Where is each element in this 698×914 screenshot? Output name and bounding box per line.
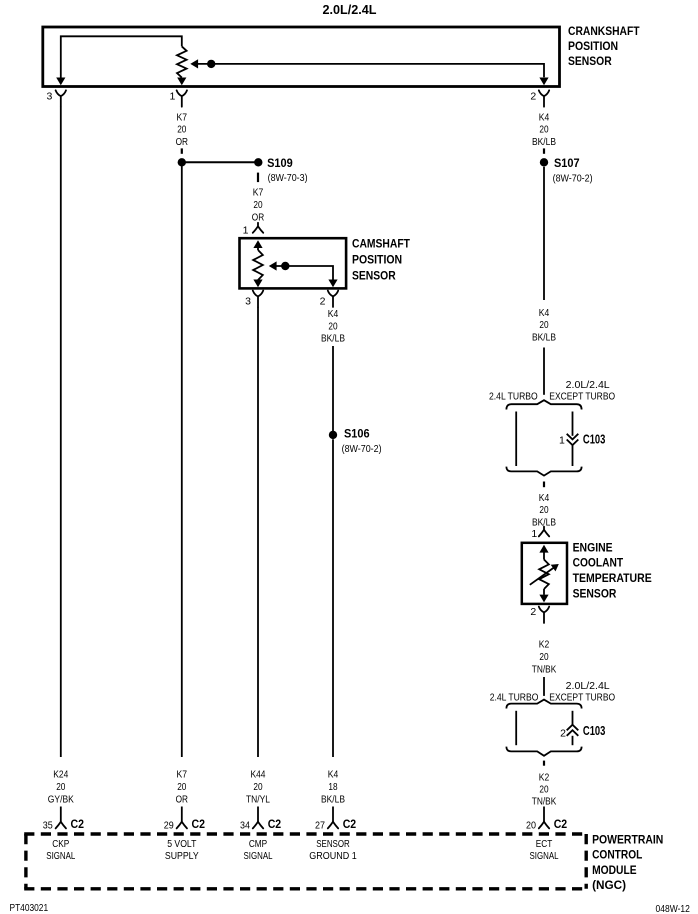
wire label K4 20 BK/LB (above ECT sensor) (532, 493, 556, 528)
svg-text:20: 20 (539, 320, 548, 331)
net name CKP SIGNAL (pin 35) (46, 839, 75, 862)
wire label K4 20 BK/LB (below crank pin 2) (532, 112, 556, 148)
svg-text:GY/BK: GY/BK (48, 794, 74, 805)
svg-text:BK/LB: BK/LB (532, 137, 556, 148)
svg-text:POSITION: POSITION (352, 253, 402, 267)
wire split 1 right branch lower (572, 445, 574, 466)
PCM pin 29 connector (177, 822, 187, 829)
crankshaft position sensor name label (568, 24, 640, 68)
svg-text:TN/BK: TN/BK (532, 796, 557, 807)
svg-text:20: 20 (539, 125, 548, 136)
svg-text:29: 29 (164, 819, 174, 831)
arrowhead up at cam pin 1 (inside box) (253, 240, 262, 248)
camshaft position sensor name label (352, 237, 411, 283)
svg-text:048W-12: 048W-12 (656, 904, 691, 914)
pin 1 connector (crankshaft) (177, 90, 187, 106)
svg-text:2.0L/2.4L: 2.0L/2.4L (566, 681, 610, 692)
net name SENSOR GROUND 1 (pin 27) (309, 839, 357, 862)
arrowhead at crank pin 1 (177, 78, 186, 86)
wire label K7 20 OR (above PCM pin 29) (176, 770, 188, 806)
pin 3 connector (camshaft) (253, 291, 263, 307)
svg-text:K24: K24 (53, 770, 68, 781)
svg-text:SENSOR: SENSOR (568, 54, 612, 68)
engine coolant temperature sensor box (522, 543, 567, 604)
junction dot on crank wiper wire (207, 60, 215, 68)
arrowhead pointing at cam resistor (269, 261, 277, 270)
svg-text:20: 20 (328, 321, 337, 332)
svg-text:EXCEPT TURBO: EXCEPT TURBO (549, 391, 615, 402)
svg-text:SIGNAL: SIGNAL (244, 851, 273, 862)
wire label K2 20 TN/BK (below ECT sensor) (532, 640, 557, 676)
wire ECT pin1 to thermistor (543, 552, 545, 559)
camshaft position sensor box (240, 238, 347, 288)
svg-text:2: 2 (530, 606, 536, 618)
svg-text:2.0L/2.4L: 2.0L/2.4L (566, 380, 610, 391)
net name 5 VOLT SUPPLY (pin 29) (165, 839, 199, 862)
wire split 1 left branch (2.4L turbo) (515, 412, 517, 467)
wire K4 cam (S106 down to PCM) (332, 439, 334, 757)
svg-text:2: 2 (530, 91, 536, 103)
svg-text:2.0L/2.4L: 2.0L/2.4L (323, 2, 377, 17)
pin 1 connector (ECT sensor) (539, 527, 549, 537)
svg-text:C103: C103 (583, 433, 606, 447)
wire split 1 top brace (506, 400, 581, 409)
wire K4 (S107 down) (543, 167, 545, 300)
svg-text:OR: OR (176, 137, 188, 148)
svg-text:C2: C2 (268, 817, 282, 831)
wire label K4 18 BK/LB (above PCM pin 27) (321, 770, 345, 806)
svg-text:K2: K2 (539, 772, 550, 783)
wire K44 (cam pin3 down to PCM) (257, 307, 259, 757)
svg-text:K4: K4 (539, 493, 550, 504)
wire split 2 right branch upper (572, 711, 574, 725)
pin 1 connector (camshaft) (253, 223, 263, 233)
svg-text:BK/LB: BK/LB (321, 794, 345, 805)
svg-text:BK/LB: BK/LB (321, 334, 345, 345)
svg-text:SIGNAL: SIGNAL (530, 851, 559, 862)
svg-text:SENSOR: SENSOR (573, 586, 617, 600)
svg-text:20: 20 (539, 505, 548, 516)
svg-text:3: 3 (245, 296, 251, 308)
svg-text:K7: K7 (253, 187, 264, 198)
svg-text:K7: K7 (177, 112, 188, 123)
wire split 2 right branch lower (572, 736, 574, 745)
svg-text:(NGC): (NGC) (592, 878, 626, 892)
wiper arrow wire (crank sensor to pin 2) (198, 64, 545, 77)
svg-text:(8W-70-3): (8W-70-3) (268, 173, 308, 184)
wire split 2 top brace (506, 700, 581, 709)
svg-text:2.4L TURBO: 2.4L TURBO (490, 692, 539, 703)
svg-text:BK/LB: BK/LB (532, 332, 556, 343)
wire K2 (ECT down to split 2) (543, 677, 545, 696)
svg-text:SENSOR: SENSOR (352, 269, 396, 283)
arrowhead at cam pin 3 (253, 280, 262, 288)
svg-text:COOLANT: COOLANT (573, 556, 624, 570)
wire split 1 right branch upper (572, 412, 574, 436)
wire K7 (junction down to PCM) (181, 162, 183, 757)
splice S106 dot (329, 431, 337, 439)
svg-text:C103: C103 (583, 724, 606, 738)
svg-text:5 VOLT: 5 VOLT (167, 839, 197, 850)
svg-text:TEMPERATURE: TEMPERATURE (573, 571, 652, 585)
PCM pin 20 connector (539, 822, 549, 829)
svg-text:K4: K4 (328, 770, 339, 781)
wire label K24 20 GY/BK (above PCM pin 35) (48, 770, 74, 806)
svg-text:S109: S109 (267, 156, 293, 170)
PCM pin 27 connector (328, 822, 338, 829)
svg-text:20: 20 (253, 200, 262, 211)
svg-text:S106: S106 (344, 426, 370, 440)
svg-text:K2: K2 (539, 640, 550, 651)
svg-text:C2: C2 (71, 817, 85, 831)
wiper arrow wire (cam sensor to pin 2) (276, 266, 333, 280)
svg-text:GROUND 1: GROUND 1 (309, 851, 357, 862)
powertrain control module name label (592, 832, 663, 892)
svg-text:S107: S107 (554, 156, 580, 170)
svg-text:K4: K4 (328, 309, 339, 320)
connector C103 pin 1 symbol (567, 434, 579, 440)
wire label K2 20 TN/BK (above PCM pin 20) (532, 772, 557, 807)
powertrain control module dashed box top edge (24, 832, 586, 835)
svg-text:2.4L TURBO: 2.4L TURBO (489, 391, 538, 402)
svg-text:1: 1 (243, 224, 249, 236)
svg-text:1: 1 (559, 434, 565, 446)
wire from K7 junction to S109 (182, 161, 255, 163)
resistor R-crank (crankshaft sensor coil) (177, 46, 187, 77)
powertrain control module dashed box left edge (24, 834, 27, 889)
pin 2 connector (ECT sensor) (539, 607, 549, 623)
PCM pin 35 connector (56, 822, 66, 829)
svg-text:CKP: CKP (52, 839, 69, 850)
arrowhead up at ECT pin 1 (inside box) (539, 545, 548, 553)
wire split 2 left branch (2.4L turbo) (515, 711, 517, 745)
svg-text:CMP: CMP (249, 839, 267, 850)
arrowhead at cam pin 2 (328, 280, 337, 288)
svg-text:2: 2 (560, 727, 566, 739)
net name ECT SIGNAL (pin 20) (530, 839, 559, 862)
wire stub into PCM pin 20 (543, 807, 545, 822)
wire continuation dash below split 2 (543, 761, 545, 766)
svg-text:C2: C2 (192, 817, 206, 831)
wire label K7 20 OR (above camshaft pin 1) (252, 187, 264, 223)
svg-text:SENSOR: SENSOR (316, 839, 350, 850)
thermistor variable arrow (530, 568, 554, 585)
svg-text:OR: OR (252, 212, 264, 223)
splice S109 dot (254, 158, 262, 166)
svg-text:CAMSHAFT: CAMSHAFT (352, 237, 411, 251)
engine coolant temperature sensor name label (573, 540, 652, 600)
svg-text:OR: OR (176, 794, 188, 805)
svg-text:MODULE: MODULE (592, 863, 637, 877)
svg-text:34: 34 (240, 819, 250, 831)
svg-text:(8W-70-2): (8W-70-2) (553, 173, 593, 184)
wire continuation dash above S109 junction (181, 148, 183, 153)
thermistor R-ECT (variable resistor) (539, 560, 549, 590)
svg-text:POWERTRAIN: POWERTRAIN (592, 832, 663, 846)
wire stub into PCM pin 34 (257, 807, 259, 822)
wire label K4 20 BK/LB (below cam pin 2) (321, 309, 345, 345)
connector C103 pin 2 symbol (567, 725, 579, 731)
svg-text:1: 1 (531, 528, 537, 540)
wire cam pin1 to resistor (257, 248, 259, 250)
pin 2 connector (camshaft) (328, 291, 338, 307)
svg-text:20: 20 (253, 782, 262, 793)
wire stub into PCM pin 35 (60, 807, 62, 822)
wire split 2 bottom brace (506, 747, 581, 756)
dash below S109 (257, 173, 259, 183)
svg-text:2: 2 (320, 296, 326, 308)
wire split 1 bottom brace (506, 467, 581, 476)
svg-text:3: 3 (46, 91, 52, 103)
pin 2 connector (crankshaft) (539, 90, 549, 106)
svg-text:20: 20 (177, 125, 186, 136)
junction dot on wire K7 (178, 158, 186, 166)
svg-text:C2: C2 (343, 817, 357, 831)
wire K4 cam (labels down to S106) (332, 346, 334, 431)
svg-text:TN/YL: TN/YL (246, 794, 270, 805)
svg-text:K4: K4 (539, 112, 550, 123)
wire inside crankshaft sensor (pin3 to resistor top) (61, 36, 182, 77)
wire label K7 20 OR (below crank pin 1) (176, 112, 188, 148)
svg-text:20: 20 (56, 782, 65, 793)
wire K4 (labels down to split) (543, 348, 545, 395)
wire label K4 20 BK/LB (above C103 split) (532, 308, 556, 343)
svg-text:20: 20 (177, 782, 186, 793)
svg-text:K4: K4 (539, 308, 550, 319)
svg-text:EXCEPT TURBO: EXCEPT TURBO (549, 692, 615, 703)
svg-text:PT403021: PT403021 (10, 903, 49, 914)
wire thermistor to pin 2 (543, 589, 545, 595)
arrowhead pointing at crank resistor (190, 59, 198, 68)
svg-text:SIGNAL: SIGNAL (46, 851, 75, 862)
svg-text:ECT: ECT (536, 839, 553, 850)
crankshaft position sensor box (43, 27, 560, 87)
svg-text:SUPPLY: SUPPLY (165, 851, 199, 862)
svg-text:POSITION: POSITION (568, 39, 618, 53)
svg-text:20: 20 (539, 784, 548, 795)
svg-text:1: 1 (169, 91, 175, 103)
svg-text:CRANKSHAFT: CRANKSHAFT (568, 24, 640, 38)
svg-text:20: 20 (539, 652, 548, 663)
powertrain control module dashed box right edge (585, 834, 588, 889)
svg-text:(8W-70-2): (8W-70-2) (342, 444, 382, 455)
arrowhead at ECT pin 2 (539, 595, 548, 603)
powertrain control module dashed box bottom edge (24, 887, 586, 890)
arrowhead at crank pin 3 (56, 78, 65, 86)
wire K24 (crank pin3 down to PCM) (60, 107, 62, 757)
wire stub into PCM pin 29 (181, 807, 183, 822)
wire stub into PCM pin 27 (332, 807, 334, 822)
svg-text:TN/BK: TN/BK (532, 664, 557, 675)
svg-text:K44: K44 (251, 770, 266, 781)
svg-text:27: 27 (315, 819, 325, 831)
wire label K44 20 TN/YL (above PCM pin 34) (246, 770, 270, 806)
net name CMP SIGNAL (pin 34) (244, 839, 273, 862)
splice S107 dot (540, 158, 548, 166)
svg-text:20: 20 (526, 819, 536, 831)
svg-text:K7: K7 (177, 770, 188, 781)
wire continuation dash below split 1 (543, 482, 545, 488)
svg-text:CONTROL: CONTROL (592, 848, 642, 862)
svg-text:18: 18 (328, 782, 337, 793)
PCM pin 34 connector (253, 822, 263, 829)
svg-text:ENGINE: ENGINE (573, 540, 613, 554)
pin 3 connector (crankshaft) (56, 90, 66, 106)
svg-text:35: 35 (43, 819, 53, 831)
arrowhead at crank pin 2 (539, 78, 548, 86)
junction dot on cam wiper wire (281, 262, 289, 270)
wire continuation dash above S107 (543, 148, 545, 153)
resistor R-cam (camshaft sensor coil) (253, 250, 263, 280)
svg-text:C2: C2 (554, 817, 568, 831)
